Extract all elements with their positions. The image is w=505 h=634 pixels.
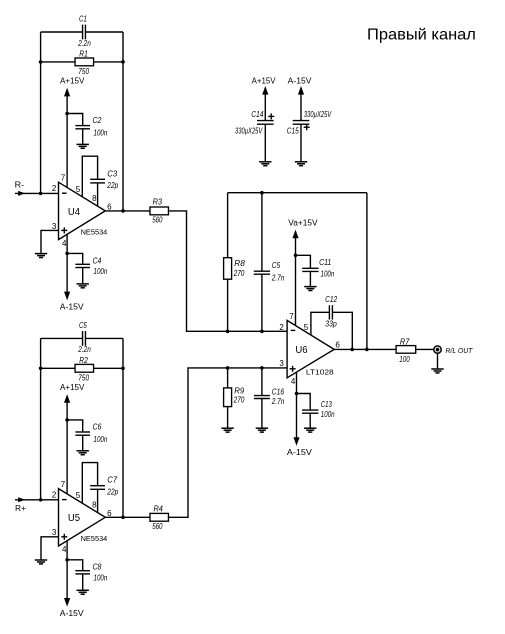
svg-text:4: 4 <box>291 377 296 386</box>
svg-text:330µX25V: 330µX25V <box>304 110 332 119</box>
svg-text:5: 5 <box>76 491 81 500</box>
svg-text:A+15V: A+15V <box>60 383 85 392</box>
svg-text:C5: C5 <box>272 261 281 270</box>
svg-text:6: 6 <box>107 203 112 212</box>
svg-text:U5: U5 <box>68 512 80 524</box>
svg-text:R+: R+ <box>15 504 26 513</box>
svg-text:U6: U6 <box>295 344 307 356</box>
svg-text:R4: R4 <box>154 504 164 513</box>
svg-text:100n: 100n <box>321 410 335 419</box>
svg-text:A+15V: A+15V <box>252 76 277 85</box>
svg-text:C4: C4 <box>93 256 102 265</box>
svg-text:C15: C15 <box>287 126 299 135</box>
svg-text:6: 6 <box>107 509 112 518</box>
svg-text:3: 3 <box>52 528 57 537</box>
svg-text:4: 4 <box>62 239 67 248</box>
svg-text:C7: C7 <box>107 476 117 485</box>
svg-text:3: 3 <box>279 359 284 368</box>
svg-text:C8: C8 <box>93 563 102 572</box>
svg-text:NE5534: NE5534 <box>81 534 108 543</box>
svg-text:270: 270 <box>233 269 245 278</box>
svg-text:2.2n: 2.2n <box>77 345 91 354</box>
svg-text:2.2n: 2.2n <box>77 39 91 48</box>
svg-text:2.7n: 2.7n <box>271 397 285 406</box>
svg-text:33p: 33p <box>325 320 337 329</box>
svg-text:C12: C12 <box>325 295 337 304</box>
svg-text:270: 270 <box>233 395 245 404</box>
svg-text:100: 100 <box>399 355 410 364</box>
svg-text:2: 2 <box>52 184 57 193</box>
svg-text:R1: R1 <box>79 49 88 58</box>
svg-text:7: 7 <box>289 312 294 321</box>
svg-text:330µX25V: 330µX25V <box>235 127 263 136</box>
svg-text:R2: R2 <box>79 356 88 365</box>
svg-text:A-15V: A-15V <box>288 76 313 85</box>
svg-text:7: 7 <box>61 174 66 183</box>
svg-text:100n: 100n <box>321 269 335 278</box>
svg-text:Va+15V: Va+15V <box>288 219 318 228</box>
svg-text:R3: R3 <box>153 198 163 207</box>
svg-text:750: 750 <box>78 67 89 76</box>
svg-text:A+15V: A+15V <box>60 76 85 85</box>
svg-text:3: 3 <box>52 222 57 231</box>
svg-text:5: 5 <box>76 185 81 194</box>
svg-text:R-: R- <box>15 181 25 190</box>
svg-text:R8: R8 <box>234 259 245 268</box>
svg-text:R/L OUT: R/L OUT <box>446 348 473 355</box>
svg-text:8: 8 <box>92 194 97 203</box>
svg-text:C1: C1 <box>79 15 87 24</box>
svg-text:2.7n: 2.7n <box>271 273 285 282</box>
svg-text:C13: C13 <box>321 400 333 409</box>
svg-text:6: 6 <box>335 340 340 349</box>
svg-text:U4: U4 <box>68 206 80 218</box>
svg-text:560: 560 <box>152 522 163 531</box>
svg-text:C5: C5 <box>79 321 87 330</box>
svg-text:C2: C2 <box>93 116 102 125</box>
svg-text:C11: C11 <box>319 258 331 267</box>
svg-text:4: 4 <box>62 545 67 554</box>
svg-text:8: 8 <box>92 501 97 510</box>
svg-text:R9: R9 <box>234 386 244 395</box>
svg-text:22p: 22p <box>106 181 118 190</box>
svg-text:LT1028: LT1028 <box>306 367 334 376</box>
svg-text:A-15V: A-15V <box>287 448 313 457</box>
svg-text:2: 2 <box>52 491 57 500</box>
svg-text:2: 2 <box>279 323 284 332</box>
svg-text:C14: C14 <box>251 110 264 119</box>
svg-text:7: 7 <box>61 480 66 489</box>
svg-text:750: 750 <box>78 374 89 383</box>
svg-text:R7: R7 <box>400 337 410 346</box>
svg-text:22p: 22p <box>106 488 118 497</box>
svg-text:C16: C16 <box>272 387 285 396</box>
svg-text:NE5534: NE5534 <box>81 228 108 237</box>
svg-text:A-15V: A-15V <box>60 609 85 618</box>
svg-text:C6: C6 <box>93 422 102 431</box>
svg-text:100n: 100n <box>94 435 108 444</box>
svg-text:C3: C3 <box>107 169 117 178</box>
svg-text:Правый канал: Правый канал <box>367 26 476 43</box>
svg-text:100n: 100n <box>94 129 108 138</box>
svg-text:100n: 100n <box>94 574 108 583</box>
svg-text:5: 5 <box>304 323 309 332</box>
svg-text:560: 560 <box>152 215 163 224</box>
svg-text:A-15V: A-15V <box>60 303 85 312</box>
svg-text:100n: 100n <box>94 267 108 276</box>
